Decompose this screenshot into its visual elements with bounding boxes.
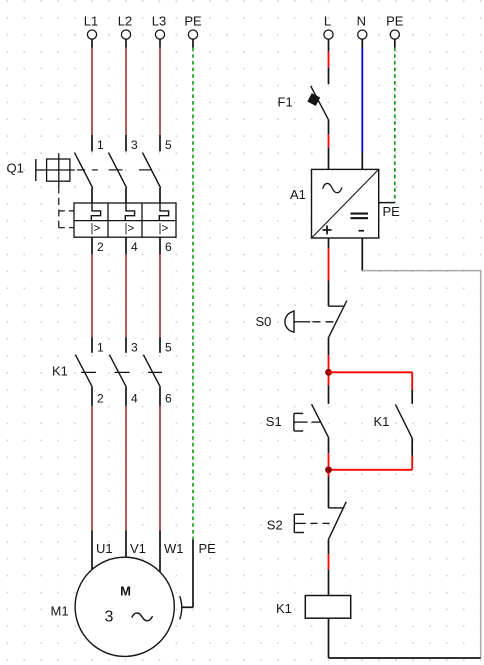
junction node (lower) (325, 466, 332, 473)
A1 pin L (328, 148, 330, 170)
Q1 pin 5 upper (159, 135, 161, 151)
wire S1 to junction (lower) (328, 453, 330, 476)
svg-text:5: 5 (165, 138, 172, 152)
terminal PE (left) (184, 14, 202, 48)
label pin 5 (K1 top) (165, 340, 172, 354)
wire S2 to K1 coil (328, 554, 330, 570)
S2 button actuator (294, 514, 329, 532)
svg-text:S2: S2 (267, 518, 283, 533)
svg-text:N: N (357, 14, 366, 29)
S1 pin lower (328, 438, 330, 454)
svg-text:1: 1 (97, 340, 104, 354)
pushbutton S2 label (267, 518, 283, 533)
contactor K1 label (main contacts) (52, 364, 68, 379)
svg-text:|>: |> (125, 223, 135, 235)
motor pin V1 (125, 530, 127, 557)
svg-text:1: 1 (97, 138, 104, 152)
svg-text:W1: W1 (164, 541, 184, 556)
svg-text:A1: A1 (290, 187, 306, 202)
svg-text:3: 3 (131, 340, 138, 354)
terminal L2 (118, 14, 132, 48)
pushbutton S0 label (256, 314, 272, 329)
motor text 3 (105, 609, 114, 626)
svg-text:M: M (120, 583, 131, 598)
Q1 linkage (dash-dot to poles) (77, 169, 152, 171)
svg-text:PE: PE (184, 14, 202, 29)
Q1 thermal element pole 1 (91, 203, 100, 221)
svg-text:U1: U1 (96, 541, 113, 556)
label pin 6 (K1 bottom) (165, 392, 172, 406)
F1 pin upper (328, 67, 330, 84)
junction node (upper) (325, 369, 332, 376)
wire S0 to junction (328, 355, 330, 385)
K1 pin 1 upper (91, 337, 93, 352)
svg-text:K1: K1 (52, 364, 68, 379)
label pin 2 (Q1 bottom) (97, 240, 104, 254)
wire Q1 to K1 phase 1 (91, 254, 93, 337)
breaker Q1 label (7, 161, 24, 176)
A1 pin minus (361, 238, 363, 271)
wire Q1 to K1 phase 2 (125, 254, 127, 337)
label pin 3 (K1 top) (131, 340, 138, 354)
label pin 1 (Q1 top) (97, 138, 104, 152)
svg-text:L2: L2 (118, 14, 132, 29)
Q1 pin 2 lower (91, 237, 93, 254)
Q1 magnetic trip symbol I> pole 3 (159, 223, 169, 235)
Q1 thermal element pole 3 (159, 203, 168, 221)
svg-text:K1: K1 (276, 601, 292, 616)
K1 coil pin upper (328, 570, 330, 596)
K1 aux pin upper (411, 390, 413, 404)
svg-text:V1: V1 (130, 541, 146, 556)
label PE (at A1) (383, 204, 401, 219)
svg-text:S0: S0 (256, 314, 272, 329)
svg-text:|>: |> (159, 223, 169, 235)
power supply A1 box (312, 169, 379, 238)
wire L3 to Q1 (159, 48, 161, 136)
svg-text:Q1: Q1 (7, 161, 24, 176)
label U1 (96, 541, 113, 556)
wire L1 to Q1 (91, 48, 93, 136)
label pin 4 (K1 bottom) (131, 392, 138, 406)
svg-text:K1: K1 (374, 414, 390, 429)
PE connection stub (181, 606, 193, 608)
motor text M (120, 583, 131, 598)
terminal L3 (152, 14, 166, 48)
A1 AC sine symbol (323, 183, 342, 192)
svg-text:6: 6 (165, 240, 172, 254)
svg-text:PE: PE (199, 541, 217, 556)
K1 aux pin lower (411, 438, 413, 456)
svg-text:2: 2 (97, 240, 104, 254)
svg-text:S1: S1 (266, 414, 282, 429)
label pin 4 (Q1 bottom) (131, 240, 138, 254)
Q1 pin 3 upper (125, 135, 127, 151)
wire K1 branch upper drop (411, 372, 413, 390)
A1 pin plus (328, 238, 330, 248)
A1 pin N (361, 152, 363, 169)
Q1 magnetic trip symbol I> pole 2 (125, 223, 135, 235)
motor AC sine symbol (132, 613, 153, 621)
Q1 linkage to trip unit (dashed) (59, 186, 74, 228)
wire A1 to S0 (328, 248, 330, 280)
svg-text:L1: L1 (84, 14, 98, 29)
svg-text:L: L (324, 14, 331, 29)
Q1 pin 4 lower (125, 237, 127, 254)
terminal L1 (84, 14, 98, 48)
S0 pin lower (328, 338, 330, 356)
S1 pin upper (328, 385, 330, 403)
wire K1 branch to junction (lower) (329, 469, 413, 471)
label W1 (164, 541, 184, 556)
svg-text:L3: L3 (152, 14, 166, 29)
wire L to F1 (328, 51, 330, 67)
wire coil to right rail (bottom) (329, 657, 481, 659)
S1 NO contact (312, 404, 329, 437)
label V1 (130, 541, 146, 556)
terminal PE (right) (386, 14, 404, 48)
label pin 1 (K1 top) (97, 340, 104, 354)
wire K1 to motor phase 2 (125, 406, 127, 531)
Q1 pole contact 3-4 (109, 153, 127, 203)
K1 main contact 5-6 (143, 355, 160, 406)
Q1 pole contact 5-6 (143, 153, 161, 203)
wire K1 to motor phase 3 (159, 406, 161, 531)
label PE (motor) (199, 541, 217, 556)
svg-text:PE: PE (383, 204, 401, 219)
label pin 5 (Q1 top) (165, 138, 172, 152)
motor pin W1 (159, 530, 161, 572)
svg-text:PE: PE (386, 14, 404, 29)
S2 pin lower (328, 539, 330, 554)
K1 aux NO contact (395, 404, 412, 438)
pushbutton S1 label (266, 414, 282, 429)
terminal N (357, 14, 367, 48)
Q1 magnetic trip symbol I> pole 1 (91, 223, 101, 235)
motor pin U1 (91, 530, 93, 569)
S1 button actuator (294, 413, 321, 431)
S0 pin upper (328, 281, 330, 307)
F1 pin lower (328, 120, 330, 134)
svg-text:3: 3 (131, 138, 138, 152)
svg-text:2: 2 (97, 392, 104, 406)
breaker Q1 manual operator (36, 153, 75, 186)
wire K1 to motor phase 1 (91, 406, 93, 531)
A1 minus terminal mark (359, 230, 365, 232)
K1 coil pin lower (328, 618, 330, 658)
motor frame PE arc (180, 596, 182, 619)
fuse switch F1 (307, 86, 328, 120)
K1 main contact 3-4 (109, 355, 126, 406)
wire L2 to Q1 (125, 48, 127, 136)
label pin 3 (Q1 top) (131, 138, 138, 152)
K1 main contact 1-2 (75, 355, 92, 406)
svg-text:4: 4 (131, 392, 138, 406)
wire PE to A1 (green dashed) (394, 48, 396, 203)
S2 pin upper (328, 477, 330, 508)
Q1 thermal element pole 2 (125, 203, 134, 221)
wire F1 to A1 (328, 134, 330, 147)
contactor coil K1 (305, 596, 350, 619)
Q1 pin 1 upper (91, 135, 93, 151)
wire Q1 to K1 phase 3 (159, 254, 161, 337)
contactor coil K1 label (276, 601, 292, 616)
Q1 overload/trip unit box (74, 203, 176, 237)
Q1 pole contact 1-2 (75, 153, 93, 203)
K1 pin 5 upper (159, 337, 161, 352)
S2 NC contact (329, 502, 347, 540)
wire minus rail (gray, top) (362, 270, 480, 272)
Q1 pin 6 lower (159, 237, 161, 254)
wire PE drop to motor (192, 540, 194, 608)
wire minus rail (gray, right edge) (480, 270, 482, 658)
contactor aux contact K1 label (374, 414, 390, 429)
fuse F1 label (278, 95, 293, 110)
motor M1 label (51, 603, 69, 618)
svg-text:4: 4 (131, 240, 138, 254)
A1 DC symbol (=) (351, 213, 369, 220)
A1 plus terminal mark (323, 225, 332, 234)
svg-text:6: 6 (165, 392, 172, 406)
K1 linkage (dashed) (81, 371, 162, 373)
S0 NC contact (329, 301, 347, 338)
power supply A1 label (290, 187, 306, 202)
S0 mushroom actuator (285, 310, 334, 333)
wire PE (green dashed, left) (192, 48, 194, 540)
wire N to A1 (361, 48, 363, 153)
svg-text:F1: F1 (278, 95, 293, 110)
label pin 6 (Q1 bottom) (165, 240, 172, 254)
wire K1 branch lower drop (411, 456, 413, 470)
svg-text:3: 3 (105, 609, 114, 626)
svg-text:M1: M1 (51, 603, 69, 618)
label pin 2 (K1 bottom) (97, 392, 104, 406)
svg-text:|>: |> (91, 223, 101, 235)
svg-text:5: 5 (165, 340, 172, 354)
wire junction to K1 branch (upper) (329, 371, 413, 373)
terminal L (324, 14, 333, 52)
motor M1 circle (75, 557, 174, 656)
A1 PE stub (379, 202, 395, 204)
K1 pin 3 upper (125, 337, 127, 352)
